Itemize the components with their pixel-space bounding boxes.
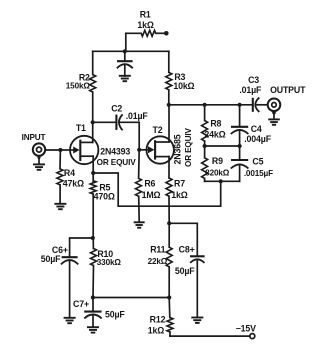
svg-text:−15V: −15V (236, 324, 256, 334)
svg-text:INPUT: INPUT (22, 133, 46, 142)
svg-text:R12: R12 (150, 315, 166, 325)
svg-text:1kΩ: 1kΩ (171, 190, 187, 200)
svg-text:C5: C5 (252, 157, 263, 167)
ground (output jack) (268, 119, 280, 124)
svg-text:R8: R8 (210, 119, 221, 129)
capacitor C2 (93, 103, 149, 130)
node input/R4/T1 gate (58, 148, 62, 152)
svg-text:C3: C3 (248, 75, 259, 85)
node T1 source (91, 171, 95, 175)
svg-text:50µF: 50µF (175, 266, 195, 276)
resistor R3 (166, 51, 195, 105)
svg-text:50µF: 50µF (105, 310, 125, 320)
capacitor C8 (169, 223, 204, 317)
wire -15V rail (170, 335, 250, 337)
wire mid junction row (205, 145, 240, 147)
svg-text:.0015µF: .0015µF (244, 169, 273, 178)
svg-text:470Ω: 470Ω (94, 192, 115, 202)
svg-text:R6: R6 (144, 179, 155, 189)
resistor R11 (148, 223, 173, 297)
svg-text:C2: C2 (111, 103, 122, 113)
wire C2 to T2 gate column (138, 122, 140, 150)
node C2 tap on R2 column (91, 120, 95, 124)
svg-text:47kΩ: 47kΩ (63, 179, 84, 189)
svg-text:330kΩ: 330kΩ (97, 258, 122, 267)
capacitor C3 (239, 75, 267, 112)
svg-text:T2: T2 (153, 125, 163, 135)
svg-text:1MΩ: 1MΩ (142, 190, 161, 200)
ground (C7) (87, 327, 99, 332)
resistor R8 (202, 105, 226, 146)
svg-text:.01µF: .01µF (126, 111, 149, 121)
capacitor C7 (73, 298, 125, 328)
svg-text:2N4393: 2N4393 (100, 147, 130, 157)
node R10/C7 (91, 295, 95, 299)
svg-text:1kΩ: 1kΩ (137, 20, 153, 30)
svg-text:T1: T1 (76, 123, 86, 133)
svg-text:150kΩ: 150kΩ (66, 82, 91, 91)
ground (C6) (64, 318, 76, 323)
resistor R2 (66, 51, 96, 122)
wire output rail (169, 104, 253, 106)
wire bottom link row (93, 297, 169, 299)
node R8/R9 (203, 144, 207, 148)
node C4 top (238, 103, 242, 107)
svg-text:C4: C4 (251, 124, 262, 134)
svg-text:.004µF: .004µF (244, 134, 271, 144)
capacitor C5 (231, 146, 273, 181)
svg-text:R4: R4 (64, 168, 75, 178)
node feedback tap (219, 179, 223, 183)
svg-text:.01µF: .01µF (239, 85, 262, 95)
node C4/C5 (238, 144, 242, 148)
resistor R12 (148, 298, 173, 337)
node T2 gate/R6 (137, 148, 141, 152)
svg-text:10kΩ: 10kΩ (173, 81, 194, 91)
node R8 top (203, 103, 207, 107)
wire top rail (93, 50, 169, 52)
svg-text:OR EQUIV: OR EQUIV (97, 158, 137, 167)
resistor R4 (57, 150, 84, 204)
output jack J2 (268, 85, 306, 119)
resistor R9 (202, 146, 230, 181)
svg-text:22kΩ: 22kΩ (148, 257, 168, 266)
resistor R10 (91, 238, 122, 298)
ground (bypass cap) (119, 76, 131, 81)
svg-text:24kΩ: 24kΩ (204, 130, 225, 140)
resistor R7 (166, 178, 188, 223)
node junction rail/R1/bypass-cap (123, 49, 127, 53)
svg-text:OUTPUT: OUTPUT (270, 85, 306, 95)
node R3/T2 drain (167, 103, 171, 107)
svg-text:OR EQUIV: OR EQUIV (184, 127, 193, 167)
resistor R1 (126, 10, 169, 37)
ground (C8) (191, 318, 203, 323)
capacitor bypass (unlabeled) (117, 51, 133, 76)
svg-text:820kΩ: 820kΩ (205, 169, 230, 178)
node R11/R12 (167, 295, 171, 299)
terminal -15V (236, 324, 256, 339)
svg-text:50µF: 50µF (41, 254, 61, 264)
input jack J1 (22, 133, 61, 164)
svg-text:R9: R9 (212, 156, 223, 166)
node R5/C6/R10 (91, 236, 95, 240)
transistor T1 (60, 122, 136, 173)
svg-text:1kΩ: 1kΩ (148, 326, 164, 336)
svg-text:C7+: C7+ (73, 299, 89, 309)
node R7/C8/R11 (167, 221, 171, 225)
svg-text:R1: R1 (140, 10, 151, 20)
resistor R5 (90, 173, 115, 238)
ground (R4) (54, 204, 66, 209)
capacitor C6 (41, 238, 93, 318)
svg-text:C8+: C8+ (179, 245, 195, 255)
resistor R6 (136, 150, 161, 222)
wire R1 left lead down to rail (125, 33, 127, 51)
wire feedback link down-left to source row (93, 173, 221, 206)
svg-text:R7: R7 (174, 179, 185, 189)
transistor T2 (139, 105, 193, 178)
svg-text:2N3685: 2N3685 (172, 134, 182, 164)
wire feedback bottom row (205, 180, 240, 182)
ground (R6) (134, 222, 145, 227)
svg-text:R11: R11 (150, 245, 165, 255)
ground (input jack) (33, 164, 45, 169)
capacitor C4 (231, 105, 272, 146)
